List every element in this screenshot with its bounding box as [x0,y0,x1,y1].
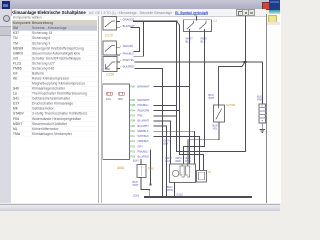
svg-text:F05: F05 [131,103,136,107]
junction node D [150,184,152,186]
svg-text:BLK: BLK [201,40,206,44]
wire W4 pur/yel long feed [135,61,245,63]
svg-text:F11: F11 [131,134,136,138]
ground label G202 [177,192,184,196]
node label gry/blk M1 [166,156,172,163]
bus main vertical [177,17,246,152]
wire W16 nested corner join [154,131,195,164]
component label M2 [209,170,212,174]
svg-text:GRY: GRY [138,144,144,148]
ground label G201 [133,193,140,197]
relay K1 [103,17,120,31]
component label S270B [226,103,235,107]
svg-text:PNK/BLU: PNK/BLU [138,150,149,154]
pin rows A8A1 [131,84,150,158]
node pin label blk/wht K1 [120,24,135,28]
node label red/blk S1 [201,37,208,44]
svg-text:WHT: WHT [133,183,139,187]
power feed node top [194,13,197,20]
svg-text:BLU/RED: BLU/RED [138,155,149,159]
svg-text:12: 12 [194,13,197,17]
wire W23 relay feed elbow [219,62,246,105]
wire W7 red/blk nested [183,31,204,164]
wire W18 terminal stub [150,150,152,185]
app icon top-left [2,1,10,9]
svg-text:RED/WHT: RED/WHT [138,98,150,102]
wire W20 R1 to ground bus [141,178,150,198]
node label blk/wht S270B top [209,93,215,100]
control unit A8A1 [103,84,130,160]
connector label C210 [105,34,113,38]
svg-text:ORN: ORN [167,188,173,192]
svg-text:PNK/BLU: PNK/BLU [123,51,135,55]
svg-text:F14: F14 [131,114,136,118]
resistor R1 blower series [137,165,146,178]
wire W8 vertical from node A [176,21,178,151]
svg-text:PNK/BLU: PNK/BLU [138,103,149,107]
right background window strip [266,14,281,203]
switch S1 heater control [184,20,212,32]
node pin label pur/yel K3 [120,58,135,62]
node label blk/wht R1 bottom [133,180,139,187]
wire W11 pin row [154,105,177,107]
ground bus bottom [145,196,251,198]
node label blk/wht R1 top [133,159,139,163]
node label blk/orn [167,185,173,192]
node pin label blk/red K3 [120,65,134,69]
header row [12,20,97,26]
svg-text:F10: F10 [131,129,136,133]
svg-text:S270B: S270B [226,103,235,107]
wire W17 stub row [154,136,200,170]
wire W4b feed to R2 [245,61,262,63]
junction node A [176,20,178,22]
wire W2b branch [134,22,144,56]
svg-text:F04: F04 [131,108,136,112]
svg-text:PNK: PNK [257,98,263,102]
svg-text:A8A1: A8A1 [117,166,125,170]
svg-text:WHT/BLK: WHT/BLK [138,134,150,138]
close button [262,2,270,10]
node label wht/blk S1 [186,37,193,44]
svg-text:F06: F06 [131,84,136,88]
svg-text:PNK: PNK [138,114,144,118]
svg-text:F12: F12 [131,139,136,143]
relay K2 [103,41,120,55]
node label blk/yel S270B bottom [213,124,219,131]
svg-text:C226: C226 [107,73,115,77]
background window top-right block [269,0,280,10]
node pin label sw/gry K2 [120,44,134,48]
svg-text:F08: F08 [131,119,136,123]
junction node C [174,196,176,198]
svg-text:G202: G202 [177,192,184,196]
wire W9 diagonal branch [177,21,180,25]
svg-text:F02: F02 [131,144,136,148]
wire W19 R1 top feed [140,160,142,165]
junction node B [244,61,247,63]
wire W15 nested corner to ground bus [154,126,166,197]
fuse F2 [118,92,124,101]
wire W11a pin row 87 [154,86,190,88]
wire W1 main feed [134,20,177,22]
svg-text:BLK: BLK [164,142,169,146]
table [12,20,97,136]
svg-text:SW/GRY: SW/GRY [123,44,134,48]
svg-text:WHT: WHT [209,96,215,100]
svg-text:M: M [209,170,212,174]
fuse F1 [106,92,112,101]
svg-text:RED/BLK: RED/BLK [138,129,149,133]
svg-text:BLK: BLK [186,40,191,44]
svg-text:BLK: BLK [166,159,171,163]
svg-text:BRN/WHT: BRN/WHT [138,84,150,88]
status bar [0,204,280,212]
node label blk/pnk R2 [257,95,263,102]
svg-text:RED: RED [186,159,192,163]
header strip [0,9,266,16]
svg-text:TMU: TMU [148,167,155,171]
connector label C2 S1 [214,19,218,23]
svg-text:30A: 30A [118,97,123,101]
svg-text:F01: F01 [131,150,136,154]
svg-text:ORANGE: ORANGE [123,18,135,22]
svg-text:ORN/BLK: ORN/BLK [138,139,149,143]
wire W26 R2 feed [262,62,264,104]
svg-text:BLK/WHT: BLK/WHT [138,124,150,128]
node pin label pnk/blu K2 [120,51,134,55]
wire W12 pin row [154,110,180,112]
svg-text:F03: F03 [131,155,136,159]
component label A8A1 [117,166,125,170]
wire W6 wht/blk to motor [189,31,191,164]
svg-text:F09: F09 [131,124,136,128]
connector label C226 [107,73,115,77]
svg-text:C2: C2 [214,19,218,23]
relay K3 [103,57,120,72]
relay S270B [214,105,225,122]
SCHEMATIC SVG [0,0,280,210]
left toolbar strip [0,9,12,203]
gutter [98,16,101,204]
folder icon in right strip [268,15,277,23]
motor M1 blower [170,164,196,183]
svg-text:BLU/WHT: BLU/WHT [138,119,150,123]
wire W27 R2 down [261,123,263,129]
svg-text:PUR/YEL: PUR/YEL [123,58,135,62]
three small toolbar buttons [236,9,243,16]
svg-text:C210: C210 [105,34,113,38]
heater resistor R2 [259,104,266,123]
svg-text:G201: G201 [133,193,140,197]
wire W24 relay bottom nested [188,122,219,164]
wire W22 motor ground leg [174,183,176,198]
node pin label orange K1 [120,18,134,22]
svg-text:BLK/: BLK/ [133,159,139,163]
node label blk/red M1 [186,156,192,163]
wire W25 lower branch [180,155,204,171]
wire W13 pin row [154,115,177,117]
table panel [11,16,99,203]
wire W2 blk/wht to loop [131,28,140,52]
svg-text:F06: F06 [131,98,136,102]
svg-text:RED: RED [176,159,182,163]
wire W5 blk/red down [135,69,163,198]
pump M2 [197,170,207,182]
svg-text:RED/GRN: RED/GRN [138,108,150,112]
svg-text:BLK/RED: BLK/RED [123,65,135,69]
component label TMU [148,167,155,171]
svg-text:10A: 10A [106,97,111,101]
ground G1 [260,130,265,133]
schematic panel [101,16,266,204]
svg-text:YEL: YEL [213,127,218,131]
wire W21 label midspan [164,139,170,146]
window title bar [0,0,271,10]
wire W14 nested corner to motor [154,121,171,164]
wire W10 second vertical [179,25,181,155]
node label gry/red M1 [176,156,182,163]
